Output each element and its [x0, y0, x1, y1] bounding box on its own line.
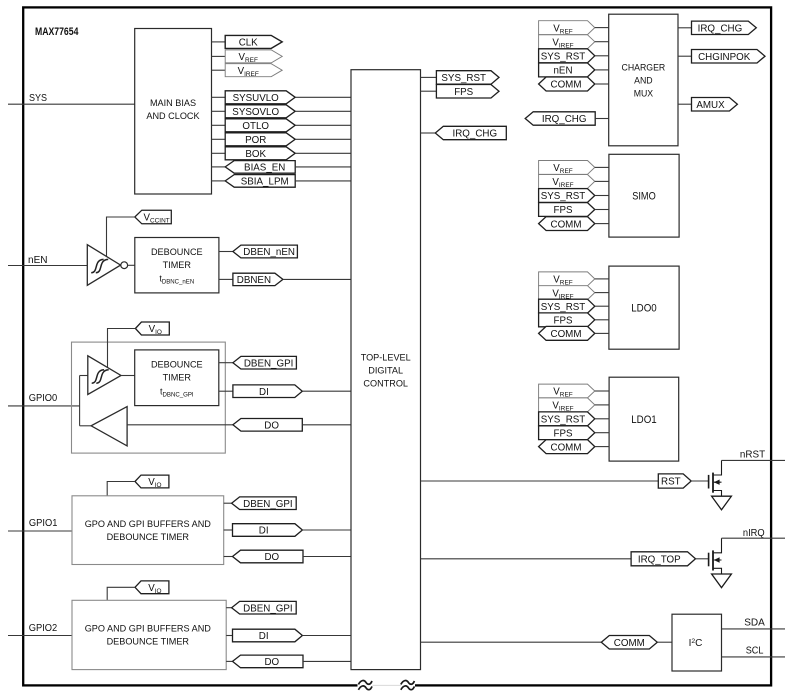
node SYSOVLO flag — [225, 105, 295, 118]
node V input flag y=279 — [539, 272, 609, 287]
wire RST from top-level control — [421, 480, 659, 482]
wire stub charger to CHGINPOK — [678, 55, 692, 57]
wire stub GPIO2 box to DI — [226, 635, 232, 637]
group box GPIO0 buffers — [72, 342, 226, 453]
svg-text:CHARGER: CHARGER — [622, 63, 666, 73]
wire nRST output — [722, 459, 786, 461]
svg-text:LDO0: LDO0 — [631, 303, 657, 315]
wire stub main-bias to flag — [212, 138, 226, 140]
node DBNEN flag — [233, 273, 283, 286]
transistor Q1 nRST open-drain NMOS — [709, 460, 722, 496]
wire OTLO to top-level control — [295, 124, 351, 126]
svg-text:DBEN_GPI: DBEN_GPI — [243, 603, 293, 614]
node SYS_RST input flag y=56 — [539, 49, 609, 63]
svg-text:DI: DI — [259, 526, 269, 537]
node COMM input flag y=447 — [539, 440, 610, 454]
svg-text:DI: DI — [259, 387, 269, 398]
node V input flag y=293 — [539, 286, 609, 301]
node SYS_RST flag at control — [436, 71, 499, 85]
node DBEN_GPI flag GPIO0 — [233, 356, 297, 369]
block GPO AND GPI BUFFERS GPIO2 — [72, 600, 226, 669]
wire GPIO1 input — [8, 530, 72, 532]
svg-text:AND CLOCK: AND CLOCK — [146, 111, 200, 122]
node SYSUVLO flag — [225, 91, 295, 104]
node COMM flag at I2C — [601, 636, 657, 650]
node V input flag y=167 — [539, 161, 609, 176]
wire stub main-bias to flag — [212, 55, 226, 57]
wire stub debounce to DI GPIO0 — [219, 390, 233, 392]
svg-text:I2C: I2C — [689, 638, 703, 649]
node DBEN_nEN flag — [233, 245, 298, 258]
svg-text:OTLO: OTLO — [242, 121, 269, 132]
svg-text:GPO AND GPI BUFFERS AND: GPO AND GPI BUFFERS AND — [85, 624, 211, 635]
svg-text:SYS_RST: SYS_RST — [541, 415, 586, 426]
pin nRST label — [740, 449, 766, 460]
svg-text:COMM: COMM — [614, 638, 645, 649]
svg-text:SCL: SCL — [746, 646, 764, 657]
svg-text:DO: DO — [264, 657, 279, 668]
block TOP-LEVEL DIGITAL CONTROL — [351, 70, 421, 670]
svg-text:DI: DI — [259, 631, 269, 642]
wire stub GPIO1 box to DI — [224, 529, 233, 531]
svg-text:COMM: COMM — [551, 329, 582, 340]
svg-text:COMM: COMM — [551, 219, 582, 230]
wire stub main-bias to flag — [212, 96, 226, 98]
output buffer U4 GPIO0 — [91, 407, 127, 446]
node CLK flag — [225, 35, 282, 48]
svg-text:BIAS_EN: BIAS_EN — [244, 163, 285, 174]
wire SYSUVLO to top-level control — [295, 96, 351, 98]
node FPS input flag y=433 — [539, 426, 610, 440]
wire stub main-bias to flag — [212, 110, 226, 112]
pin nEN label — [28, 255, 48, 266]
node V input flag y=42 — [539, 35, 609, 50]
node DBEN_GPI flag GPIO1 — [232, 497, 297, 510]
node VIREF flag — [225, 64, 282, 78]
node V input flag y=391 — [539, 384, 610, 399]
node FPS flag at control — [436, 85, 499, 99]
node SBIA_LPM flag — [225, 175, 295, 188]
wire GPIO0 to schmitt input — [80, 375, 88, 377]
node POR flag — [225, 133, 295, 146]
svg-text:DBEN_GPI: DBEN_GPI — [244, 358, 294, 369]
wire BOK to top-level control — [295, 152, 351, 154]
svg-text:TOP-LEVEL: TOP-LEVEL — [361, 353, 412, 364]
node V input flag y=28 — [539, 21, 609, 36]
wire stub debounce to DBEN_GPI GPIO0 — [219, 362, 233, 364]
svg-text:COMM: COMM — [551, 80, 582, 91]
svg-text:RST: RST — [661, 477, 681, 488]
node COMM input flag y=333 — [539, 326, 609, 340]
wire stub main-bias to flag — [212, 152, 226, 154]
node V input flag y=405 — [539, 398, 610, 413]
wire GPIO2 input — [8, 635, 72, 637]
svg-text:IRQ_CHG: IRQ_CHG — [542, 114, 587, 125]
wire SDA output — [722, 628, 786, 630]
node OTLO flag — [225, 119, 295, 132]
svg-text:GPIO0: GPIO0 — [29, 393, 58, 404]
wire DO GPIO1 from top-level control — [303, 556, 351, 558]
node FPS input flag y=320 — [539, 313, 609, 327]
wire nIRQ output — [722, 537, 786, 539]
wire stub charger to IRQ_CHG out — [678, 27, 692, 29]
wire RST flag to Q1 gate — [691, 480, 708, 482]
wire schmitt output to debounce GPIO0 — [121, 375, 135, 377]
svg-text:TIMER: TIMER — [163, 373, 191, 384]
svg-text:CLK: CLK — [239, 38, 258, 49]
svg-text:DEBOUNCE: DEBOUNCE — [151, 360, 203, 371]
svg-text:FPS: FPS — [454, 87, 473, 98]
svg-text:DEBOUNCE TIMER: DEBOUNCE TIMER — [107, 637, 189, 648]
svg-text:DIGITAL: DIGITAL — [368, 366, 403, 377]
node COMM input flag y=84 — [539, 77, 609, 91]
pin SYS label — [29, 93, 47, 104]
svg-text:DBEN_nEN: DBEN_nEN — [243, 247, 295, 258]
svg-text:GPIO2: GPIO2 — [29, 623, 58, 634]
svg-text:DEBOUNCE TIMER: DEBOUNCE TIMER — [107, 532, 189, 543]
node DI flag GPIO2 — [233, 629, 303, 642]
wire DI GPIO0 to top-level control — [302, 390, 351, 392]
wire SCL output — [722, 656, 786, 658]
svg-text:GPIO1: GPIO1 — [29, 518, 58, 529]
svg-text:SYS_RST: SYS_RST — [541, 302, 586, 313]
svg-text:IRQ_CHG: IRQ_CHG — [698, 24, 743, 35]
wire VIO to GPIO2 box — [107, 587, 135, 600]
wire stub debounce to DBEN_nEN — [219, 251, 233, 253]
node IRQ_CHG output flag — [692, 21, 757, 34]
wire stub GPIO1 box to DBEN_GPI — [224, 502, 232, 504]
wire stub control to IRQ_CHG flag — [421, 132, 436, 134]
wire SYS input — [8, 103, 135, 105]
wire GPIO0 input — [8, 405, 80, 407]
svg-text:DEBOUNCE: DEBOUNCE — [151, 247, 203, 258]
svg-text:IRQ_TOP: IRQ_TOP — [638, 555, 681, 566]
label MAX77654 — [35, 26, 78, 38]
svg-text:DBNEN: DBNEN — [237, 275, 271, 286]
node VCCINT flag — [135, 210, 172, 225]
wire stub GPIO2 box to DBEN_GPI — [226, 607, 231, 609]
wire DI GPIO2 to top-level control — [302, 635, 351, 637]
pin GPIO1 label — [29, 518, 58, 529]
wire SYSOVLO to top-level control — [295, 110, 351, 112]
wire buffer output to GPIO0 junction — [80, 425, 92, 427]
break squiggle right on bottom border — [401, 681, 415, 690]
block CHARGER AND MUX — [609, 14, 678, 146]
transistor Q2 nIRQ open-drain NMOS — [709, 538, 722, 574]
wire GPIO0 junction vertical — [79, 376, 81, 426]
wire DI GPIO1 to top-level control — [302, 529, 351, 531]
node DO flag GPIO2 — [233, 655, 304, 668]
wire DO GPIO0 from top-level control — [302, 424, 351, 426]
wire stub main-bias to flag — [212, 69, 226, 71]
svg-text:FPS: FPS — [554, 428, 573, 439]
pin GPIO2 label — [29, 623, 58, 634]
node COMM input flag y=224 — [539, 217, 609, 231]
block LDO0 — [609, 266, 679, 349]
wire stub control to SYS_RST flag — [421, 76, 437, 78]
node DO flag GPIO1 — [233, 550, 304, 563]
wire schmitt output to debounce timer — [128, 264, 135, 266]
wire stub debounce to DBNEN — [219, 278, 233, 280]
wire VIO to schmitt supply GPIO0 — [108, 329, 136, 368]
node CHGINPOK output flag — [692, 50, 766, 64]
svg-text:CHGINPOK: CHGINPOK — [698, 52, 750, 63]
svg-text:AND: AND — [634, 76, 653, 86]
node SYS_RST input flag y=419 — [539, 412, 610, 426]
svg-text:IRQ_CHG: IRQ_CHG — [453, 129, 498, 140]
wire stub charger to AMUX — [678, 103, 692, 105]
node DBEN_GPI flag GPIO2 — [232, 601, 297, 614]
node SYS_RST input flag y=306 — [539, 299, 609, 313]
svg-text:SYS: SYS — [29, 93, 47, 104]
node SYS_RST input flag y=196 — [539, 189, 609, 203]
svg-text:SDA: SDA — [744, 618, 765, 629]
block LDO1 — [609, 377, 679, 461]
svg-text:FPS: FPS — [554, 316, 573, 327]
node IRQ_TOP flag — [631, 552, 695, 566]
wire stub main-bias to flag — [212, 166, 226, 168]
node DI flag GPIO1 — [233, 524, 303, 537]
block DEBOUNCE TIMER GPIO0 — [135, 350, 219, 406]
wire DO GPIO2 from top-level control — [303, 660, 351, 662]
svg-text:SYS_RST: SYS_RST — [541, 191, 586, 202]
wire DO GPIO0 to output buffer — [127, 424, 233, 426]
node DI flag GPIO0 — [233, 385, 302, 398]
pin SCL label — [746, 646, 764, 657]
pin nIRQ label — [743, 528, 765, 539]
wire stub GPIO1 box to DO — [224, 556, 233, 558]
svg-text:SYS_RST: SYS_RST — [441, 73, 486, 84]
node VREF flag — [225, 50, 282, 64]
svg-text:MAIN BIAS: MAIN BIAS — [150, 98, 196, 109]
wire SBIA_LPM to top-level control — [295, 180, 351, 182]
svg-text:SYS_RST: SYS_RST — [541, 52, 586, 63]
node BIAS_EN flag — [225, 161, 295, 174]
svg-text:nRST: nRST — [740, 449, 766, 460]
node DO flag GPIO0 — [233, 419, 302, 432]
wire stub main-bias to flag — [212, 180, 226, 182]
wire COMM flag to I2C block — [657, 641, 672, 643]
svg-text:CONTROL: CONTROL — [363, 379, 408, 390]
wire POR to top-level control — [295, 138, 351, 140]
wire stub control to FPS flag — [421, 90, 437, 92]
ground arrow Q2 source — [712, 574, 732, 588]
svg-text:POR: POR — [245, 135, 266, 146]
svg-text:nEN: nEN — [554, 66, 573, 77]
wire stub GPIO2 box to DO — [226, 660, 232, 662]
wire stub main-bias to flag — [212, 124, 226, 126]
svg-text:SIMO: SIMO — [632, 191, 656, 203]
block GPO AND GPI BUFFERS GPIO1 — [72, 496, 224, 565]
svg-text:TIMER: TIMER — [163, 260, 191, 271]
svg-text:DO: DO — [264, 421, 279, 432]
svg-text:FPS: FPS — [554, 205, 573, 216]
svg-text:MUX: MUX — [634, 89, 653, 99]
node BOK flag — [225, 147, 295, 160]
block SIMO — [609, 154, 679, 237]
svg-text:nIRQ: nIRQ — [743, 528, 765, 539]
pin SDA label — [744, 618, 765, 629]
wire IRQ_CHG flag to charger box — [595, 118, 609, 120]
svg-text:MAX77654: MAX77654 — [35, 26, 78, 38]
svg-text:nEN: nEN — [28, 255, 48, 266]
wire nEN input — [8, 265, 87, 267]
wire COMM from top-level control — [421, 641, 602, 643]
node nEN input flag y=70 — [539, 63, 609, 77]
schmitt trigger U3 GPIO0 — [88, 356, 121, 395]
node FPS input flag y=210 — [539, 203, 609, 217]
block MAIN BIAS AND CLOCK U1 — [135, 29, 212, 195]
node VIO flag GPIO0 — [135, 322, 169, 336]
svg-text:LDO1: LDO1 — [631, 414, 657, 426]
svg-text:DBEN_GPI: DBEN_GPI — [243, 499, 293, 510]
wire BIAS_EN to top-level control — [295, 166, 351, 168]
block I2C interface — [672, 614, 722, 671]
node IRQ_CHG flag at control — [435, 126, 506, 139]
wire stub main-bias to flag — [212, 41, 226, 43]
node V input flag y=181 — [539, 175, 609, 190]
svg-text:SBIA_LPM: SBIA_LPM — [241, 177, 289, 188]
break squiggle left on bottom border — [358, 681, 372, 690]
svg-text:SYSUVLO: SYSUVLO — [233, 93, 279, 104]
svg-text:AMUX: AMUX — [696, 100, 724, 111]
ground arrow Q1 source — [712, 496, 732, 510]
wire IRQ_TOP from top-level control — [421, 558, 632, 560]
node IRQ_CHG flag to charger — [525, 112, 595, 125]
wire IRQ_TOP flag to Q2 gate — [696, 558, 709, 560]
svg-text:SYSOVLO: SYSOVLO — [232, 107, 279, 118]
svg-text:DO: DO — [264, 552, 279, 563]
node VIO flag GPIO1 — [135, 475, 169, 489]
node VIO flag GPIO2 — [135, 581, 169, 595]
wire DBNEN to top-level control — [283, 278, 351, 280]
wire VCCINT to schmitt supply — [107, 217, 135, 257]
node RST flag — [658, 474, 691, 488]
wire VIO to GPIO1 box — [107, 482, 135, 496]
svg-text:COMM: COMM — [551, 442, 582, 453]
block DEBOUNCE TIMER nEN — [135, 238, 219, 293]
svg-text:GPO AND GPI BUFFERS AND: GPO AND GPI BUFFERS AND — [85, 519, 211, 530]
node AMUX output flag — [692, 98, 738, 112]
schmitt trigger inverter U2 nEN — [87, 245, 127, 286]
pin GPIO0 label — [29, 393, 58, 404]
svg-text:BOK: BOK — [245, 149, 266, 160]
